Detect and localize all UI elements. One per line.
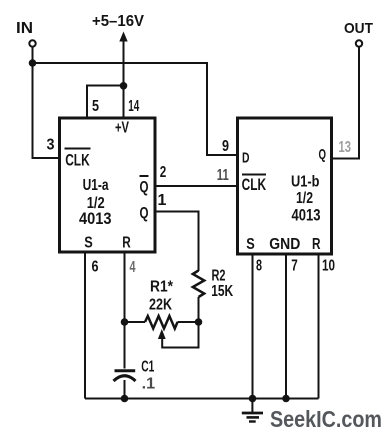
svg-text:4: 4 <box>130 259 136 276</box>
wire +V to pins 5 and 14 <box>87 86 124 119</box>
svg-text:7: 7 <box>291 258 298 275</box>
junction R1 right node <box>195 318 203 326</box>
junction IN node <box>29 59 37 67</box>
svg-text:OUT: OUT <box>344 20 373 37</box>
svg-text:22K: 22K <box>149 297 172 314</box>
svg-text:4013: 4013 <box>79 210 112 228</box>
wire pin 2 to pin 11 <box>154 185 239 187</box>
svg-text:D: D <box>242 150 250 167</box>
ground symbol <box>242 399 263 422</box>
wire R2 to wiper junction <box>198 297 200 322</box>
resistor R2 <box>193 271 204 298</box>
U1-a CLK label with overline <box>65 149 91 170</box>
wire pin 1 to R2 <box>154 212 199 272</box>
svg-text:+V: +V <box>115 120 129 137</box>
svg-text:5: 5 <box>92 98 99 115</box>
svg-text:11: 11 <box>217 167 229 184</box>
svg-text:S: S <box>246 236 255 253</box>
wire IN node to U1-b pin 9 <box>33 63 239 155</box>
wire U1-b pin 13 to OUT <box>330 47 359 159</box>
U1-b CLK label with overline <box>242 175 267 195</box>
wire IN node to U1-a pin 3 <box>33 47 61 158</box>
svg-text:GND: GND <box>269 236 300 253</box>
svg-text:6: 6 <box>92 259 99 276</box>
wire pin 7 to ground bus <box>285 253 287 399</box>
junction pin 8 ground bus <box>249 395 257 403</box>
svg-text:15K: 15K <box>211 283 233 300</box>
svg-text:Q: Q <box>140 205 149 222</box>
svg-text:1: 1 <box>158 192 167 209</box>
svg-text:14: 14 <box>128 98 139 115</box>
junction +V node <box>120 82 128 90</box>
svg-text:3: 3 <box>47 137 55 154</box>
svg-text:R: R <box>312 236 321 253</box>
svg-text:C1: C1 <box>141 359 154 376</box>
IC U1-a box <box>60 118 156 252</box>
svg-text:CLK: CLK <box>65 151 90 170</box>
svg-text:Q: Q <box>319 146 327 163</box>
ground bus wire <box>85 398 319 400</box>
svg-text:8: 8 <box>256 258 262 275</box>
svg-text:13: 13 <box>339 139 352 156</box>
svg-text:.1: .1 <box>142 376 156 393</box>
wire pin 6 down to ground bus <box>84 251 86 399</box>
svg-text:SeekIC.com: SeekIC.com <box>270 406 382 432</box>
R1 wiper arm <box>158 323 199 348</box>
svg-text:R: R <box>122 235 131 252</box>
wire R1 junction to C1 <box>124 322 126 369</box>
U1-a Qbar output label <box>140 176 149 196</box>
svg-text:U1-a: U1-a <box>83 177 109 194</box>
wire pin 8 to ground bus <box>252 253 254 399</box>
svg-text:U1-b: U1-b <box>291 173 320 190</box>
wire pin 10 to ground bus <box>318 253 320 399</box>
potentiometer R1 body <box>125 316 199 329</box>
supply arrow <box>119 32 127 86</box>
junction R1 left node <box>121 318 129 326</box>
svg-text:1/2: 1/2 <box>296 190 313 207</box>
svg-text:2: 2 <box>160 164 167 181</box>
IC U1-b box <box>238 118 332 254</box>
svg-text:IN: IN <box>16 20 33 37</box>
svg-text:10: 10 <box>322 258 335 275</box>
node OUT terminal <box>344 20 373 47</box>
svg-text:+5–16V: +5–16V <box>92 13 144 30</box>
wire pin 4 down to R1 <box>124 251 126 322</box>
junction C1 ground bus <box>121 395 129 403</box>
svg-text:9: 9 <box>222 138 229 155</box>
svg-text:R2: R2 <box>212 268 226 285</box>
svg-text:S: S <box>84 235 93 252</box>
svg-text:CLK: CLK <box>242 175 267 194</box>
svg-text:R1*: R1* <box>150 279 174 296</box>
capacitor C1 <box>114 371 136 399</box>
junction pin 7 ground bus <box>282 395 290 403</box>
svg-text:Q: Q <box>140 179 149 196</box>
node IN terminal <box>16 20 36 47</box>
svg-text:4013: 4013 <box>292 207 321 225</box>
